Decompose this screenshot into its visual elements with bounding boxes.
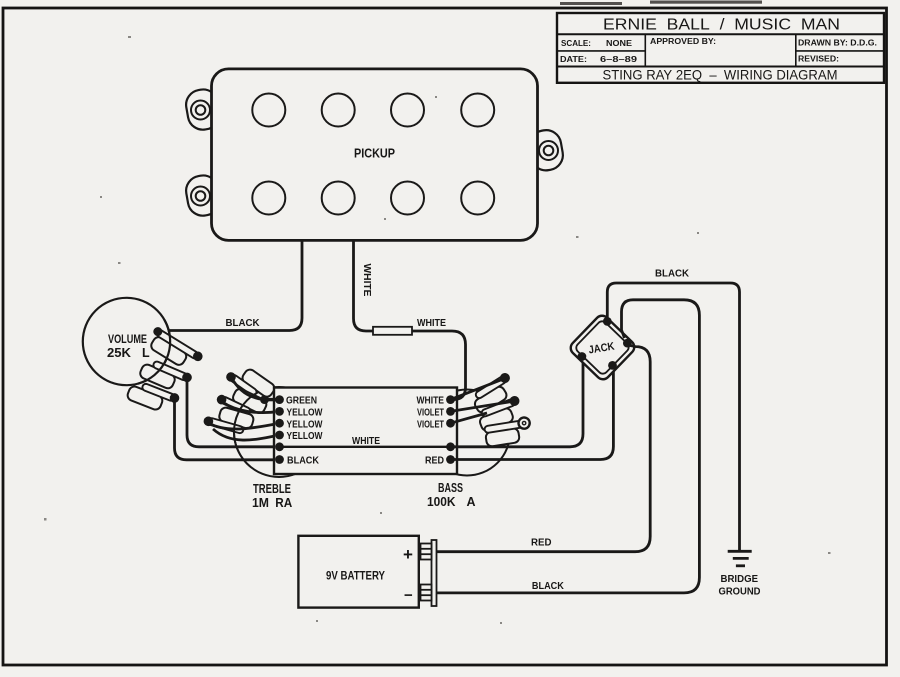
preamp right pin WHITE	[446, 395, 455, 404]
title block frame	[557, 13, 884, 83]
wire bass VIOLET to lug2	[451, 402, 513, 412]
wire WHITE inside preamp	[280, 446, 451, 448]
bridge ground symbol	[728, 551, 752, 566]
svg-text:9V BATTERY: 9V BATTERY	[326, 569, 385, 583]
svg-text:A: A	[467, 495, 476, 509]
svg-text:DATE:: DATE:	[560, 54, 587, 64]
volume pot rim overlay	[138, 320, 170, 384]
wire jack to bridge ground	[607, 283, 739, 551]
svg-text:25K: 25K	[107, 346, 131, 360]
svg-text:RED: RED	[425, 455, 444, 467]
wire pickup white lead	[354, 241, 374, 332]
treble pot rim overlay	[234, 394, 255, 467]
preamp left pin YELLOW r2	[275, 407, 284, 416]
svg-text:WHITE: WHITE	[417, 317, 446, 329]
svg-text:APPROVED BY:: APPROVED BY:	[650, 36, 716, 46]
preamp left pin r5	[275, 442, 284, 451]
battery body	[298, 536, 418, 608]
svg-text:BLACK: BLACK	[287, 455, 319, 467]
svg-text:SCALE:: SCALE:	[561, 38, 591, 48]
green jumper dot	[260, 395, 269, 404]
wire battery red to jack tip	[437, 345, 651, 551]
svg-text:PICKUP: PICKUP	[354, 147, 395, 161]
wire bass WHITE to lug1	[451, 380, 503, 400]
battery snap plate	[432, 540, 437, 606]
svg-text:GROUND: GROUND	[719, 586, 761, 598]
scan specks	[44, 36, 831, 624]
svg-text:RA: RA	[275, 496, 292, 510]
battery snap terminal minus	[421, 585, 432, 601]
volume lug 2	[139, 355, 194, 396]
jack terminal bottom	[608, 361, 617, 370]
preamp left pin GREEN	[275, 395, 284, 404]
preamp right pin RED	[446, 455, 455, 464]
svg-text:TREBLE: TREBLE	[253, 482, 291, 496]
preamp left pin YELLOW r4	[275, 431, 284, 440]
splice on white wire	[373, 327, 412, 335]
wire battery black to jack ring	[437, 300, 700, 593]
svg-text:YELLOW: YELLOW	[287, 418, 323, 430]
svg-text:+: +	[403, 545, 413, 564]
pickup mounting ear right	[527, 128, 565, 173]
pickup pole piece row 1	[252, 94, 494, 127]
jack body outer	[568, 313, 637, 382]
pickup body	[212, 69, 538, 241]
treble lug 3	[202, 403, 254, 438]
wire treble to YELLOW r4	[213, 429, 280, 440]
svg-text:BLACK: BLACK	[226, 317, 260, 329]
svg-text:L: L	[142, 346, 150, 360]
svg-text:DRAWN BY: D.D.G.: DRAWN BY: D.D.G.	[798, 38, 877, 48]
svg-text:STING RAY 2EQ – WIRING DIAGR: STING RAY 2EQ – WIRING DIAGRAM	[603, 67, 838, 83]
svg-text:NONE: NONE	[606, 38, 632, 48]
treble lug 1	[224, 360, 276, 406]
svg-text:GREEN: GREEN	[286, 395, 317, 407]
scan smudge above title block	[560, 1, 762, 6]
preamp right pin r5	[446, 442, 455, 451]
wire preamp RED pin to jack	[451, 368, 614, 459]
wire bass VIOLET2 stub	[451, 413, 488, 423]
wire preamp r5 to jack sleeve	[451, 359, 584, 447]
svg-text:VIOLET: VIOLET	[417, 406, 444, 418]
svg-text:BRIDGE: BRIDGE	[721, 573, 759, 585]
wire treble lug1 to GREEN	[231, 377, 263, 400]
svg-text:100K: 100K	[427, 495, 456, 509]
jack terminal right	[623, 339, 632, 348]
svg-text:−: −	[404, 587, 413, 604]
wire treble lug3 to YELLOW r3	[208, 423, 279, 429]
preamp left pin BLACK	[275, 455, 284, 464]
pickup pole piece row 2	[252, 182, 494, 215]
treble pot body	[234, 387, 324, 477]
volume lug 3	[126, 377, 181, 416]
svg-text:ERNIE BALL / MUSIC MAN: ERNIE BALL / MUSIC MAN	[603, 17, 840, 34]
wire volume lug3 to preamp BLACK	[175, 400, 280, 460]
svg-text:WHITE: WHITE	[417, 395, 445, 407]
jack terminal top	[603, 317, 612, 326]
svg-text:6–8–89: 6–8–89	[600, 54, 637, 64]
wire white lead continues to preamp	[412, 331, 466, 400]
preamp right pin VIOLET	[446, 407, 455, 416]
jack terminal left	[578, 352, 587, 361]
bass lug 1	[468, 371, 518, 414]
pickup mounting ear bottom-left	[184, 173, 222, 218]
battery snap terminal plus	[421, 544, 432, 560]
svg-text:RED: RED	[531, 537, 552, 549]
preamp right pin VIOLET2	[446, 419, 455, 428]
bass lug 3 with eyelet	[484, 417, 533, 447]
svg-text:WHITE: WHITE	[361, 264, 373, 297]
svg-text:VIOLET: VIOLET	[417, 418, 444, 430]
svg-text:BLACK: BLACK	[655, 268, 689, 280]
svg-text:BLACK: BLACK	[532, 580, 564, 592]
svg-text:YELLOW: YELLOW	[287, 406, 323, 418]
bass pot body	[424, 390, 510, 476]
wire treble lug2 to YELLOW r2	[222, 402, 280, 413]
svg-text:YELLOW: YELLOW	[287, 430, 323, 442]
bass lug 2	[475, 395, 525, 433]
svg-text:BASS: BASS	[438, 481, 463, 495]
preamp connector block	[274, 388, 457, 475]
svg-text:VOLUME: VOLUME	[108, 332, 147, 346]
svg-text:1M: 1M	[252, 496, 269, 510]
wire volume lug2 to preamp row5	[187, 379, 280, 447]
preamp left pin YELLOW r3	[275, 419, 284, 428]
pickup mounting ear top-left	[184, 87, 222, 132]
svg-text:WHITE: WHITE	[352, 435, 380, 447]
svg-text:REVISED:: REVISED:	[798, 54, 839, 64]
volume lug 1	[145, 325, 205, 374]
wire pickup black lead to volume	[158, 241, 302, 331]
volume pot body	[83, 298, 170, 385]
treble lug 2	[215, 381, 268, 422]
